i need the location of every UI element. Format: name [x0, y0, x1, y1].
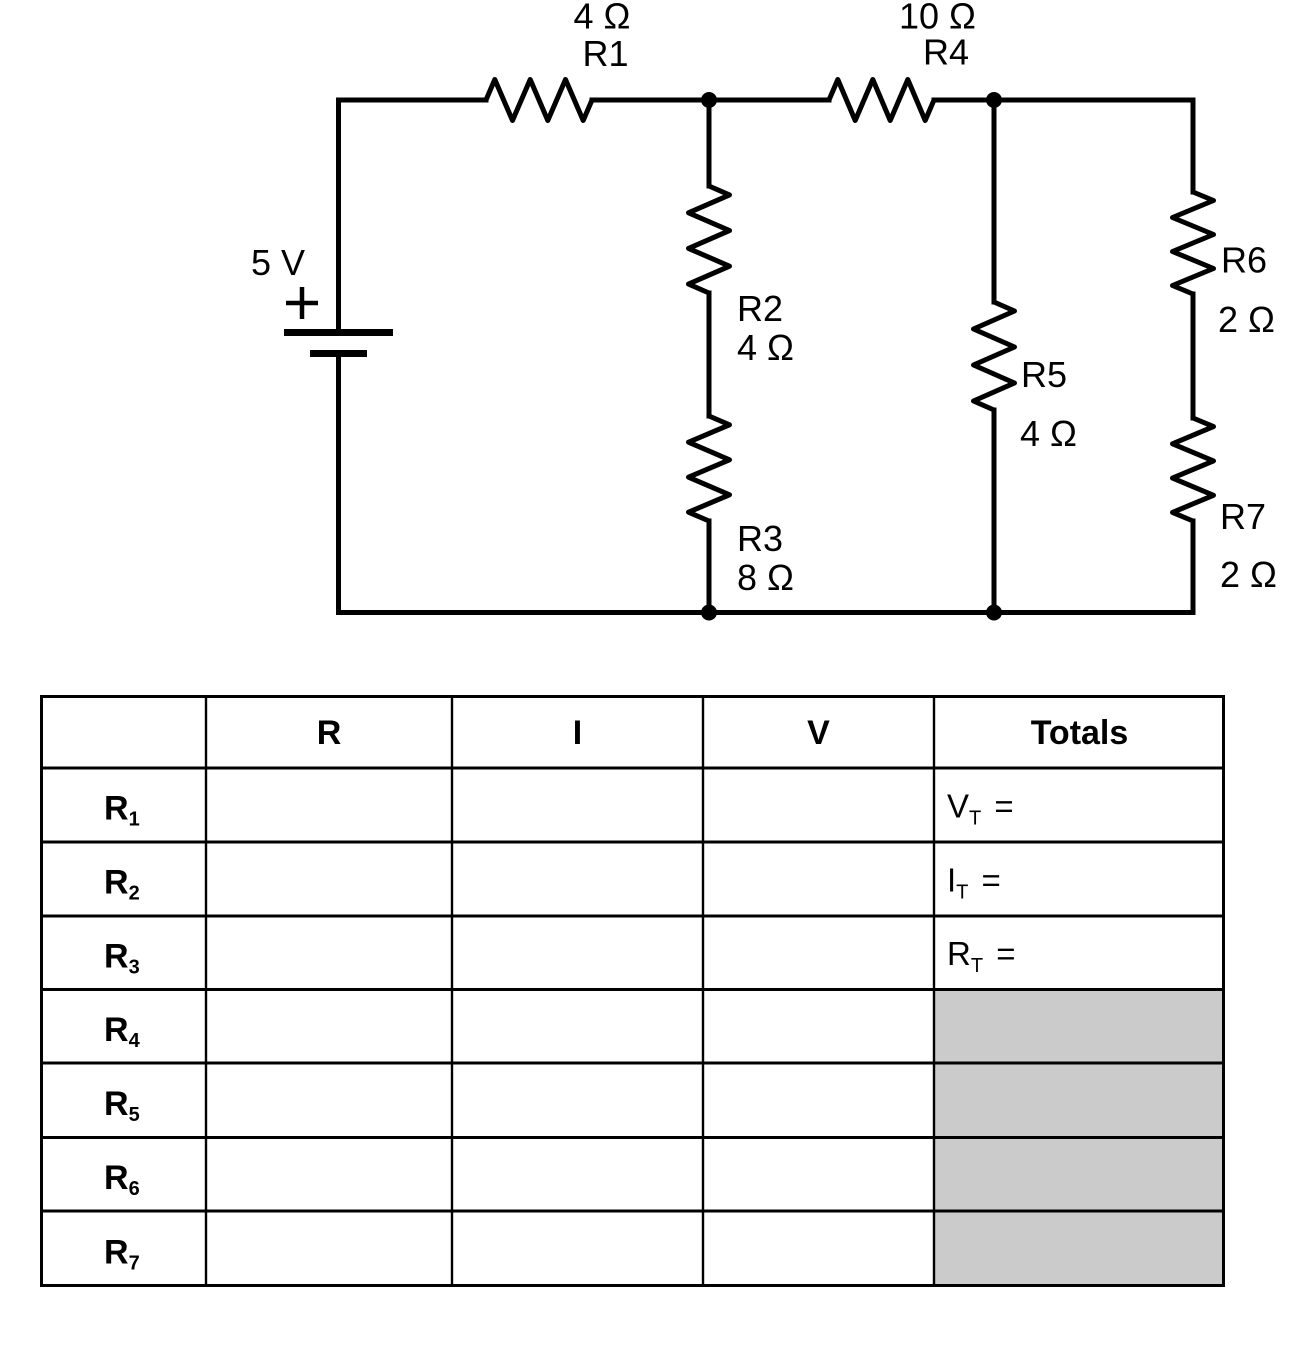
resistor R5: [974, 302, 1015, 410]
svg-text:R7: R7: [104, 1234, 140, 1275]
table outer border: [42, 697, 1224, 1286]
table row divider lines: [40, 767, 1225, 770]
resistor R7: [1173, 418, 1214, 521]
svg-text:R5: R5: [104, 1085, 140, 1126]
svg-text:4 Ω: 4 Ω: [1020, 413, 1077, 454]
svg-text:R1: R1: [582, 33, 628, 74]
svg-text:2 Ω: 2 Ω: [1220, 554, 1277, 595]
svg-text:RT =: RT =: [947, 935, 1016, 977]
wire right rail between R6 and R7: [1191, 294, 1196, 418]
svg-text:8 Ω: 8 Ω: [737, 557, 794, 598]
table: gray shaded Totals cells rows R4-R7: [934, 990, 1224, 1286]
svg-text:IT =: IT =: [947, 861, 1001, 903]
resistor R1: [486, 80, 592, 121]
wire R5 branch below R5: [992, 410, 997, 613]
svg-text:2 Ω: 2 Ω: [1218, 299, 1275, 340]
node D (bottom R5 junction): [986, 605, 1002, 621]
resistor R6: [1173, 192, 1214, 294]
svg-text:Totals: Totals: [1031, 714, 1129, 752]
svg-text:5 V: 5 V: [251, 242, 305, 283]
wire top wire R1 to R4: [592, 98, 829, 103]
wire middle branch below R3: [707, 521, 712, 613]
wire middle branch between R2 and R3: [707, 293, 712, 416]
svg-text:VT =: VT =: [947, 787, 1014, 829]
node A (R1/R4/R2 junction): [701, 92, 717, 108]
svg-text:V: V: [807, 714, 830, 752]
wire right rail below R7: [1191, 521, 1196, 613]
svg-text:R6: R6: [104, 1159, 140, 1200]
svg-text:4 Ω: 4 Ω: [574, 0, 631, 37]
table column divider lines: [205, 695, 207, 1287]
svg-text:R2: R2: [737, 288, 783, 329]
node C (bottom R3 junction): [701, 605, 717, 621]
svg-text:R: R: [317, 714, 342, 752]
svg-text:R4: R4: [104, 1011, 141, 1052]
node B (R4/R5/R6 junction): [986, 92, 1002, 108]
wire left rail up from battery + top wire to R1: [339, 100, 487, 330]
wire R5 branch above R5: [992, 100, 997, 302]
svg-text:R7: R7: [1220, 496, 1266, 537]
svg-text:I: I: [573, 714, 582, 752]
wire middle branch above R2: [707, 100, 712, 186]
resistor R3: [689, 416, 730, 521]
svg-text:4 Ω: 4 Ω: [737, 327, 794, 368]
svg-text:R2: R2: [104, 864, 140, 905]
svg-text:R1: R1: [104, 790, 140, 831]
wire top wire R4 to top-right corner down to R6: [934, 100, 1193, 192]
svg-text:R3: R3: [737, 518, 783, 559]
svg-text:R3: R3: [104, 937, 140, 978]
svg-text:R6: R6: [1221, 240, 1267, 281]
svg-text:R4: R4: [923, 32, 969, 73]
wire bottom wire: [339, 610, 1194, 615]
resistor R2: [689, 186, 730, 293]
wire left rail below battery: [336, 355, 341, 613]
battery V1 5 V: [284, 287, 393, 354]
resistor R4: [829, 80, 934, 121]
svg-text:R5: R5: [1021, 354, 1067, 395]
